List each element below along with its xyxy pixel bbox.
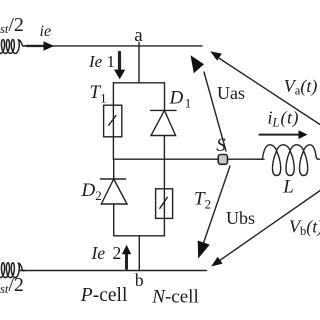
wire middle rail to S [113,158,218,160]
inductor Lst/2 bottom [0,263,25,278]
svg-text:Lst/2: Lst/2 [0,14,24,36]
svg-text:Uas: Uas [217,83,245,103]
node S [218,155,227,165]
wire bottom rail [19,270,207,272]
svg-text:T2: T2 [194,189,211,212]
svg-text:D1: D1 [169,88,192,111]
wire T1 branch [112,83,114,159]
voltage arrow Uas [191,55,227,151]
svg-text:ie: ie [40,23,52,40]
wire D1 bottom lead [163,136,165,160]
wire T2 branch [163,159,165,236]
diode D2 [101,179,128,204]
current arrow Ie2 [122,245,131,269]
voltage arrow Vb(t) [211,191,320,267]
svg-text:Ie 1: Ie 1 [88,52,115,71]
svg-text:P-cell: P-cell [80,285,128,306]
wire P-cell top rail [113,82,164,84]
svg-text:Va(t): Va(t) [284,76,318,98]
svg-text:b: b [135,270,144,290]
inductor L [256,145,320,176]
wire node b riser [138,236,140,271]
svg-text:Vb(t): Vb(t) [289,217,320,239]
wire top rail [24,45,202,47]
wire D2 top lead [113,159,115,179]
wire S to inductor L [228,158,265,160]
current arrow ie [27,41,54,51]
wire D2 bottom lead [113,204,115,236]
svg-text:Ubs: Ubs [226,208,255,228]
svg-text:D2: D2 [81,180,102,203]
svg-text:L: L [282,176,294,197]
voltage arrow Ubs [198,166,230,259]
transistor T1 [104,105,122,137]
current arrow iL [260,130,308,139]
svg-text:T1: T1 [90,82,107,106]
inductor Lst/2 top [0,40,27,54]
svg-text:iL(t): iL(t) [268,108,299,130]
diode D1 [151,110,176,135]
wire P-cell bottom rail [114,235,165,237]
svg-text:N-cell: N-cell [151,287,198,308]
transistor T2 [156,189,173,219]
wire node a drop [138,42,140,83]
svg-text:Ie 2: Ie 2 [91,243,122,263]
svg-text:S: S [216,135,226,156]
wire D1 top lead [164,83,166,111]
current arrow Ie1 [114,53,125,80]
voltage arrow Va(t) [210,51,320,124]
svg-text:a: a [134,25,143,46]
